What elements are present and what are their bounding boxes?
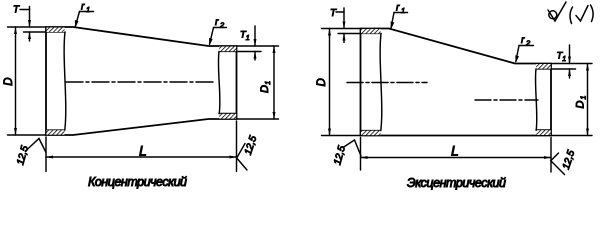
svg-text:Эксцентрический: Эксцентрический bbox=[407, 176, 506, 190]
svg-text:Концентрический: Концентрический bbox=[88, 175, 187, 189]
dimension T (right): arrow up bbox=[343, 34, 346, 41]
svg-text:1: 1 bbox=[401, 6, 405, 15]
svg-text:12,5: 12,5 bbox=[561, 149, 578, 171]
radius leader r2 (left): shelf bbox=[214, 27, 227, 29]
dimension T (left): lower shaft bbox=[29, 32, 31, 41]
dimension T (left): upper shaft bbox=[29, 7, 31, 28]
hatched wall section big end top (right) bbox=[361, 29, 381, 34]
dimension T1 (left): upper shaft bbox=[254, 26, 256, 46]
dimension D (left): extension top bbox=[8, 26, 47, 28]
svg-text:2: 2 bbox=[525, 39, 531, 48]
radius leader r1 (right): shelf bbox=[394, 12, 408, 14]
dimension L (left): arrow left bbox=[46, 156, 53, 159]
break (wavy) line small end (left) bbox=[218, 52, 220, 114]
break (wavy) line big end (right) bbox=[380, 34, 382, 131]
dimension D (right): extension bottom bbox=[322, 135, 361, 137]
radius leader r1 (right): leader line bbox=[391, 13, 394, 29]
svg-text:r: r bbox=[521, 35, 525, 46]
inner wall line big end top (right) bbox=[361, 33, 382, 35]
break (wavy) line big end (left) bbox=[64, 32, 66, 130]
label T shelf (right) bbox=[336, 11, 344, 13]
svg-text:L: L bbox=[139, 143, 147, 159]
inner wall line small end top (left) bbox=[219, 51, 237, 53]
hatched wall section small end bottom (right) bbox=[536, 130, 551, 135]
svg-text:D: D bbox=[316, 78, 328, 86]
dimension T1 (left): outer extension line bbox=[237, 45, 279, 47]
svg-text:1: 1 bbox=[86, 5, 90, 14]
svg-text:r: r bbox=[215, 17, 219, 28]
roughness mark right face (left fig) bbox=[237, 144, 247, 171]
svg-text:L: L bbox=[451, 143, 459, 159]
inner wall line small end top (right) bbox=[536, 68, 551, 70]
dimension T1 (right): outer extension line bbox=[551, 63, 592, 65]
hatched wall section big end top (left) bbox=[47, 28, 65, 33]
dimension T1 (right): inner extension line bbox=[551, 68, 576, 70]
dimension T1 (right): lower shaft bbox=[569, 69, 571, 78]
dimension T1 (left): lower shaft bbox=[254, 52, 256, 61]
dimension T (right): upper shaft bbox=[343, 8, 345, 29]
hatched wall section small end top (right) bbox=[536, 64, 551, 69]
dimension D1 (left): arrow up bbox=[273, 46, 276, 53]
reducer body outline (left) bbox=[46, 27, 237, 135]
hatched wall section big end bottom (left) bbox=[47, 130, 65, 135]
roughness mark left face (right fig) bbox=[343, 140, 361, 156]
svg-text:12,5: 12,5 bbox=[332, 144, 348, 166]
dimension T1 (right): upper shaft bbox=[569, 45, 571, 64]
radius leader r2 (right): shelf bbox=[519, 45, 534, 47]
dimension T1 (left): arrow up bbox=[254, 52, 257, 59]
dimension L (left): dimension line bbox=[46, 156, 237, 158]
dimension T (right): inner extension line bbox=[338, 33, 361, 35]
surface finish symbol: circle bbox=[549, 11, 557, 19]
svg-text:T: T bbox=[330, 8, 337, 19]
roughness mark right face (right fig) bbox=[551, 153, 565, 175]
dimension T (left): arrow up to inner line bbox=[28, 32, 31, 39]
dimension T (right): lower shaft bbox=[343, 34, 345, 43]
surface finish symbol: close paren bbox=[591, 5, 594, 22]
dimension L (left): right extension bbox=[236, 121, 238, 172]
dimension D (right): dimension line bbox=[329, 29, 331, 136]
hatched wall section small end bottom (left) bbox=[219, 114, 236, 119]
dimension D (left): arrow up bbox=[14, 27, 17, 34]
svg-text:12,5: 12,5 bbox=[15, 144, 31, 166]
radius leader r2 (left): arrowhead bbox=[209, 38, 213, 46]
svg-text:1: 1 bbox=[265, 81, 272, 85]
radius leader r1 (left): arrowhead bbox=[75, 20, 79, 28]
centerline small axis (right) bbox=[475, 99, 538, 101]
dimension D1 (left): bottom extension bbox=[237, 118, 279, 120]
svg-text:1: 1 bbox=[581, 96, 588, 100]
surface finish symbol: open paren bbox=[570, 7, 572, 24]
dimension L (right): arrow right bbox=[544, 156, 551, 159]
hatched wall section small end top (left) bbox=[219, 47, 236, 52]
dimension D (right): arrow up bbox=[328, 29, 331, 36]
svg-text:1: 1 bbox=[562, 56, 566, 63]
svg-text:12,5: 12,5 bbox=[243, 134, 260, 156]
dimension L (left): left extension bbox=[45, 137, 47, 172]
dimension L (right): dimension line bbox=[361, 157, 552, 159]
svg-text:D: D bbox=[259, 85, 271, 93]
radius leader r2 (left): leader line bbox=[210, 28, 214, 45]
centerline big axis (right) bbox=[347, 82, 427, 84]
surface finish symbol: small check bbox=[576, 6, 588, 22]
dimension L (right): arrow left bbox=[361, 156, 368, 159]
dimension L (left): arrow right bbox=[230, 156, 237, 159]
dimension T1 (left): inner extension line bbox=[237, 51, 262, 53]
svg-text:1: 1 bbox=[246, 35, 250, 42]
svg-text:2: 2 bbox=[219, 21, 225, 30]
dimension D (left): dimension line bbox=[15, 27, 17, 135]
dimension T (right): arrow down bbox=[343, 22, 346, 29]
dimension T (left): inner extension line bbox=[24, 31, 47, 33]
dimension T1 (left): arrow down bbox=[254, 39, 257, 46]
dimension T1 (right): arrow down bbox=[568, 57, 571, 64]
dimension T (left): arrow down to outer line bbox=[28, 20, 31, 27]
label T shelf (left) bbox=[20, 9, 30, 11]
break (wavy) line small end (right) bbox=[535, 69, 536, 130]
inner wall line small end bottom (right) bbox=[536, 129, 551, 131]
dimension L (right): right extension bbox=[550, 138, 552, 173]
dimension D1 (right): arrow up bbox=[586, 64, 589, 71]
dimension D1 (right): dimension line bbox=[587, 64, 589, 136]
radius leader r1 (right): arrowhead bbox=[391, 22, 395, 30]
radius leader r1 (left): leader line bbox=[75, 12, 79, 27]
radius leader r1 (left): shelf bbox=[80, 11, 94, 13]
svg-text:D: D bbox=[575, 101, 587, 109]
hatched wall section big end bottom (right) bbox=[361, 131, 381, 136]
radius leader r2 (right): arrowhead bbox=[515, 55, 519, 63]
svg-text:D: D bbox=[3, 77, 15, 85]
inner wall line small end bottom (left) bbox=[219, 113, 237, 115]
surface finish symbol (top right): circled check bbox=[548, 2, 566, 21]
inner wall line big end top (left) bbox=[46, 31, 65, 33]
dimension T1 (right): arrow up bbox=[568, 69, 571, 76]
dimension D1 (right): bottom extension bbox=[551, 135, 592, 137]
radius leader r2 (right): leader line bbox=[516, 46, 519, 62]
dimension D1 (left): arrow down bbox=[273, 112, 276, 119]
roughness mark left face (left fig) bbox=[26, 139, 47, 153]
inner wall line big end bottom (left) bbox=[46, 129, 65, 131]
dimension D1 (right): arrow down bbox=[586, 129, 589, 136]
dimension D (left): extension bottom bbox=[8, 134, 47, 136]
dimension D (right): extension top bbox=[322, 28, 361, 30]
reducer body outline (right) bbox=[361, 29, 552, 136]
dimension L (right): left extension bbox=[360, 138, 362, 171]
svg-text:T: T bbox=[13, 5, 20, 16]
dimension D (right): arrow down bbox=[328, 129, 331, 136]
inner wall line big end bottom (right) bbox=[361, 130, 382, 132]
dimension D (left): arrow down bbox=[14, 128, 17, 135]
centerline (left) bbox=[66, 81, 216, 83]
dimension D1 (left): dimension line bbox=[273, 46, 275, 119]
